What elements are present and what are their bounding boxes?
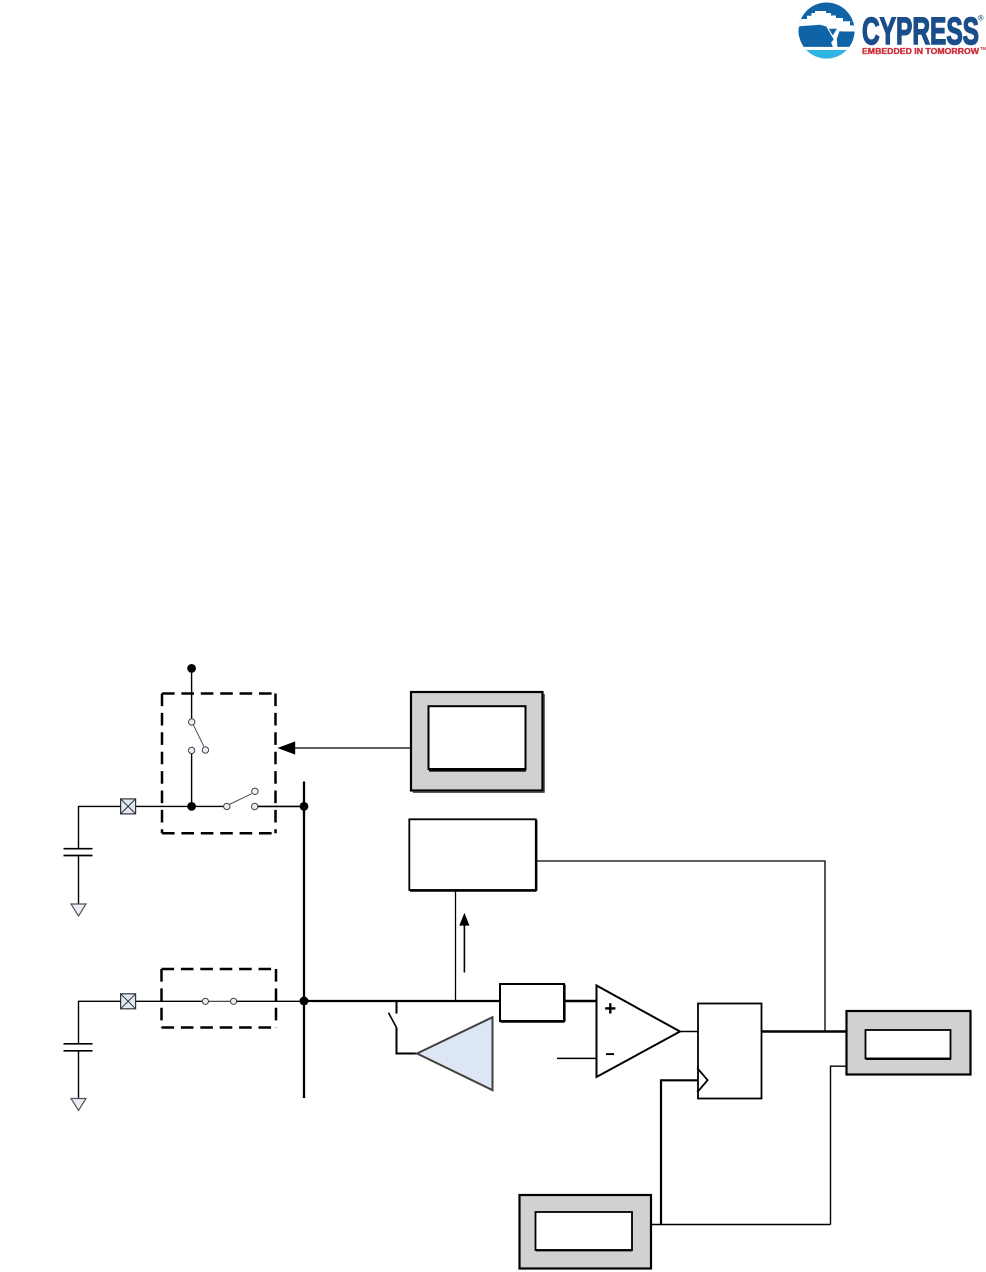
wire Rb to comparator [564, 1000, 596, 1002]
IDAC block [409, 819, 536, 891]
junction dot on bus (bottom) [300, 997, 309, 1006]
Cypress logo mark (circle) [796, 3, 857, 61]
node VDD terminal dot [187, 664, 196, 673]
wire IDAC to sensor bus [455, 891, 457, 1002]
current direction arrow [459, 913, 469, 973]
wire pin P2 to capacitor C2 [79, 1001, 121, 1043]
resistor Rb box [500, 984, 565, 1022]
switch to buffer [388, 1001, 416, 1054]
Cypress logo tagline [862, 46, 986, 56]
wire SW3 to bus [237, 1000, 304, 1002]
svg-text:®: ® [978, 13, 984, 22]
svg-text:TM: TM [980, 46, 986, 51]
ground (C1) [71, 904, 86, 916]
wire SW1 to junction [191, 754, 193, 807]
junction dot A [187, 802, 196, 811]
wire pin P2 to SW3 [136, 1000, 203, 1002]
comparator U1 [597, 986, 681, 1078]
status block (gray frame, right) [847, 1011, 971, 1075]
wire SW2 to bus [258, 805, 304, 807]
svg-text:EMBEDDED IN TOMORROW: EMBEDDED IN TOMORROW [862, 46, 979, 56]
Cypress logo wordmark [862, 11, 984, 53]
wire+arrow control into switch box [277, 741, 411, 754]
comparator minus input stub [557, 1057, 597, 1059]
wire VDD to switch SW1 [191, 668, 193, 718]
buffer amplifier (triangle) [417, 1017, 493, 1090]
clock wire to flip-flop [661, 1080, 698, 1224]
flip-flop clock chevron [697, 1068, 707, 1092]
wire IDAC output to flip-flop output net [537, 861, 826, 1032]
junction dot on bus (top) [300, 802, 309, 811]
wire capacitor C1 to ground [78, 856, 80, 905]
switch enclosure box (dashed, top) [162, 694, 276, 834]
wire clock source output [651, 1224, 831, 1226]
GPIO pin P1 (sensor pin) [121, 799, 136, 814]
wire status block to clock source [831, 1066, 847, 1224]
capacitor C1 [64, 849, 93, 856]
hardware control block (gray frame) [411, 692, 544, 793]
switch SW2 (to AMUX bus, open) [224, 788, 259, 810]
switch SW1 (precharge, open) [188, 719, 208, 754]
wire capacitor C2 to ground [78, 1051, 80, 1099]
flip-flop U2 [698, 1004, 762, 1099]
wire bus to Rb box [304, 1000, 500, 1002]
wire pin P1 to capacitor C1 [79, 806, 121, 848]
wire flip-flop output to status block [762, 1030, 847, 1032]
hardware control inner box [429, 706, 526, 769]
status block inner box [866, 1030, 952, 1059]
ground (C2) [71, 1099, 86, 1111]
clock source block (gray frame, bottom) [520, 1195, 652, 1269]
analog bus wire (vertical) [303, 782, 305, 1099]
capacitor C2 [64, 1044, 93, 1051]
wire comparator output to flip-flop [680, 1031, 698, 1033]
switch SW3 (closed) [202, 998, 236, 1004]
switch enclosure box (dashed, bottom) [162, 969, 277, 1028]
wire pin P1 to SW2 [136, 805, 224, 807]
GPIO pin P2 (Cmod pin) [121, 994, 136, 1009]
clock source inner box [536, 1212, 633, 1250]
